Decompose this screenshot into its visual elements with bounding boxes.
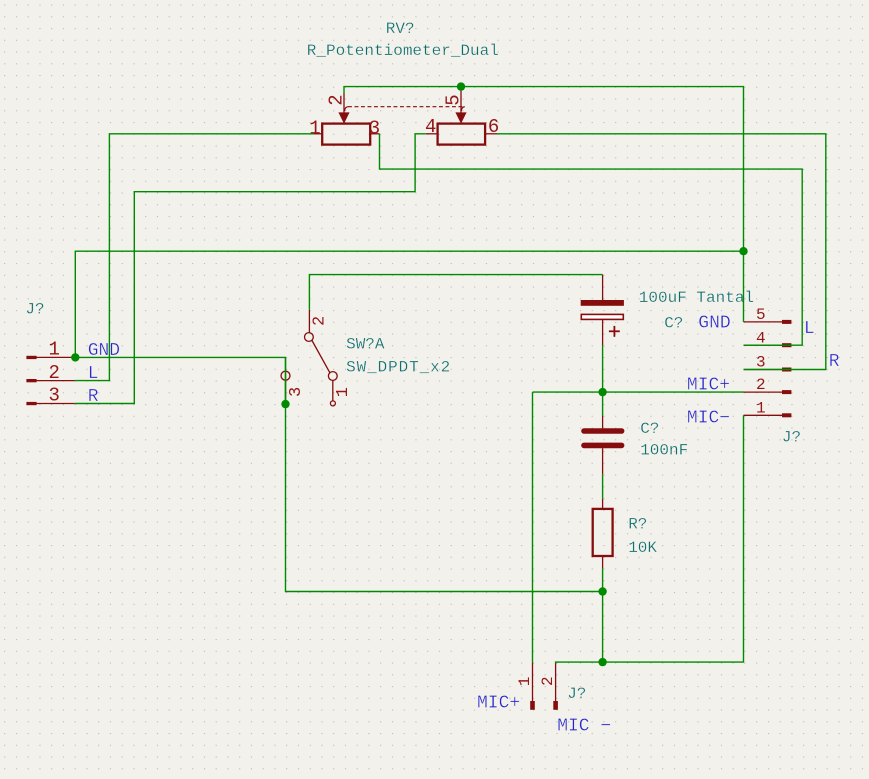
- svg-text:GND: GND: [698, 314, 730, 334]
- switch SW?A common contact and pin 1: [328, 372, 337, 406]
- svg-text:3: 3: [48, 385, 59, 407]
- capacitor C? 100nF reference label: [640, 420, 659, 438]
- pin 3 lead of RV?A: [370, 133, 379, 135]
- pin number 2 of right J?: [756, 376, 766, 394]
- connector J? left pin 1: [26, 356, 74, 359]
- pin number 1 of left J?: [48, 339, 59, 361]
- connector J? right pin 1: [744, 413, 792, 417]
- connector J? right pin 2: [744, 390, 792, 394]
- switch SW?A lever: [312, 341, 330, 373]
- wire GND: left J? pin1 junction up to bus row: [75, 87, 743, 358]
- pin number 3 of right J?: [756, 354, 766, 372]
- pin number 3 of left J?: [48, 385, 59, 407]
- capacitor C? 100uF polarized plates: [581, 300, 624, 319]
- net label R at right connector: [829, 352, 840, 372]
- connector J? bottom pin 2: [553, 663, 558, 710]
- net label L at left connector: [88, 364, 99, 384]
- capacitor C? 100uF Tantal value label: [639, 289, 754, 307]
- pin 6 lead of RV?B: [485, 133, 497, 135]
- svg-text:2: 2: [311, 316, 330, 326]
- wire L: left J? pin2 up to RV?A pin 1: [75, 134, 314, 381]
- connector J? right pin 4: [744, 343, 792, 347]
- svg-text:2: 2: [756, 376, 766, 394]
- svg-text:6: 6: [488, 116, 499, 138]
- svg-text:1: 1: [334, 387, 353, 397]
- wire GND: wiper 5 stub from junction: [460, 87, 462, 90]
- wiper pin 2 stem and arrow of RV?A: [338, 93, 349, 124]
- net label MIC+ at right connector: [687, 376, 730, 396]
- svg-text:4: 4: [425, 116, 436, 138]
- svg-text:C?: C?: [664, 314, 683, 332]
- wire MIC-: bottom junction to bottom J? pin 2: [556, 662, 603, 663]
- net label R at left connector: [88, 387, 99, 407]
- connector J? left pin 3: [26, 402, 74, 405]
- resistor R? value label 10K: [628, 539, 657, 557]
- svg-text:5: 5: [443, 94, 465, 105]
- svg-text:5: 5: [756, 306, 766, 324]
- wire: switch pin 2 to capacitor C? 100uF top: [309, 275, 602, 310]
- svg-text:1: 1: [48, 339, 59, 361]
- wire GND: down to right J? pin 5: [743, 251, 745, 322]
- svg-text:1: 1: [309, 117, 320, 139]
- wire: switch pin 3 vertical through contact: [285, 357, 287, 404]
- pin number 2 of RV?A (rotated): [325, 94, 347, 105]
- net label L at right connector: [804, 319, 815, 339]
- svg-text:R_Potentiometer_Dual: R_Potentiometer_Dual: [307, 42, 499, 60]
- potentiometer RV? reference label: [386, 20, 415, 38]
- wire R out: RV?B pin6 to right J? pin 3: [497, 134, 826, 370]
- wiper pin 5 stem and arrow of RV?B: [455, 89, 466, 124]
- junction at MIC+ row: [598, 388, 606, 396]
- pin number 5 of right J?: [756, 306, 766, 324]
- pin number 3 of SW?A (rotated): [287, 387, 306, 397]
- pin number 1 of RV?A: [309, 117, 320, 139]
- svg-text:SW?A: SW?A: [346, 335, 385, 353]
- capacitor C? 100uF leads: [602, 275, 604, 346]
- svg-text:MIC −: MIC −: [557, 716, 611, 736]
- wire L out: RV?A pin3 to right J? pin 4: [380, 134, 803, 345]
- svg-text:100uF Tantal: 100uF Tantal: [639, 289, 754, 307]
- svg-text:1: 1: [756, 399, 766, 417]
- junction at right GND column: [739, 247, 747, 255]
- switch SW?A reference label: [346, 335, 385, 353]
- svg-text:SW_DPDT_x2: SW_DPDT_x2: [346, 358, 451, 376]
- capacitor C? 100nF leads: [602, 416, 604, 474]
- potentiometer RV? section B body: [438, 124, 486, 145]
- junction at resistor bottom: [598, 587, 606, 595]
- svg-text:1: 1: [516, 677, 534, 687]
- switch SW?A pin 2 contact: [305, 310, 314, 342]
- net label GND at right connector: [698, 314, 730, 334]
- capacitor C? 100nF value label: [640, 441, 688, 459]
- resistor R? body: [593, 509, 613, 556]
- net label GND at left connector: [88, 341, 120, 361]
- connector J? right pin 3: [744, 368, 792, 372]
- wire: MIC+ junction to capacitor C? 100nF top: [602, 392, 604, 416]
- svg-text:3: 3: [369, 117, 380, 139]
- pin 4 lead of RV?B: [426, 133, 438, 135]
- resistor R? leads: [602, 499, 604, 568]
- plus sign of polarized capacitor: [609, 326, 620, 337]
- wire: capacitor C? 100nF bottom to resistor R? top: [602, 474, 604, 498]
- svg-text:2: 2: [325, 94, 347, 105]
- svg-text:MIC−: MIC−: [687, 409, 730, 429]
- svg-text:MIC+: MIC+: [477, 694, 520, 714]
- svg-text:3: 3: [287, 387, 306, 397]
- svg-text:L: L: [804, 319, 815, 339]
- switch SW?A pin 3 contact: [281, 371, 290, 404]
- net label MIC- at right connector: [687, 409, 730, 429]
- capacitor C? 100nF plates: [584, 431, 622, 445]
- junction at switch pin 3: [281, 400, 289, 408]
- svg-text:2: 2: [539, 676, 557, 686]
- pin number 5 of RV?B (rotated): [443, 94, 465, 105]
- junction at left J? pin 1: [71, 353, 79, 361]
- switch SW?A value label SW_DPDT_x2: [346, 358, 451, 376]
- svg-text:R: R: [829, 352, 840, 372]
- svg-text:2: 2: [48, 362, 59, 384]
- svg-text:RV?: RV?: [386, 20, 415, 38]
- pin number 4 of right J?: [756, 329, 766, 347]
- svg-text:R?: R?: [628, 516, 647, 534]
- svg-text:100nF: 100nF: [640, 441, 688, 459]
- wire: resistor R? bottom to GND junction: [602, 568, 604, 592]
- capacitor C? 100uF reference label: [664, 314, 683, 332]
- pin number 4 of RV?B: [425, 116, 436, 138]
- connector J? left pin 2: [26, 379, 74, 382]
- pin number 3 of RV?A: [369, 117, 380, 139]
- connector J? bottom pin 1: [530, 663, 535, 710]
- pin number 1 of SW?A (rotated): [334, 387, 353, 397]
- pin number 1 of right J?: [756, 399, 766, 417]
- resistor R? reference label: [628, 516, 647, 534]
- connector J? right pin 5: [744, 320, 792, 324]
- wire R: left J? pin3 up to RV?B pin 4: [75, 134, 426, 404]
- connector J? left reference label: [25, 301, 44, 319]
- pin number 2 of SW?A (rotated): [311, 316, 330, 326]
- net label MIC+ at bottom connector: [477, 694, 520, 714]
- potentiometer RV? section A body: [322, 124, 370, 145]
- pin number 6 of RV?B: [488, 116, 499, 138]
- pin number 2 of bottom J? (rotated): [539, 676, 557, 686]
- wire MIC+: horizontal to right J? pin 2: [533, 391, 744, 393]
- potentiometer RV? value label R_Potentiometer_Dual: [307, 42, 499, 60]
- pin number 1 of bottom J? (rotated): [516, 677, 534, 687]
- connector J? right reference label: [782, 428, 801, 446]
- connector J? bottom reference label: [567, 685, 586, 703]
- svg-text:10K: 10K: [628, 539, 657, 557]
- svg-text:J?: J?: [567, 685, 586, 703]
- net label MIC - at bottom connector: [557, 716, 611, 736]
- junction at wiper 5: [457, 82, 465, 90]
- wire: capacitor C? 100uF bottom to MIC+ junction: [602, 345, 604, 392]
- wire GND: left J? pin1 to switch pin 3 column: [75, 357, 602, 662]
- pin number 2 of left J?: [48, 362, 59, 384]
- svg-text:J?: J?: [25, 301, 44, 319]
- pin 1 lead of RV?A: [314, 133, 322, 135]
- svg-text:C?: C?: [640, 420, 659, 438]
- wire MIC-: bottom junction to right J? pin 1: [603, 415, 744, 662]
- mechanical coupling dashed link between wipers: [345, 107, 465, 111]
- junction at MIC- row: [598, 658, 606, 666]
- svg-text:J?: J?: [782, 428, 801, 446]
- wire MIC+: corner down to bottom J? pin 1: [532, 392, 534, 662]
